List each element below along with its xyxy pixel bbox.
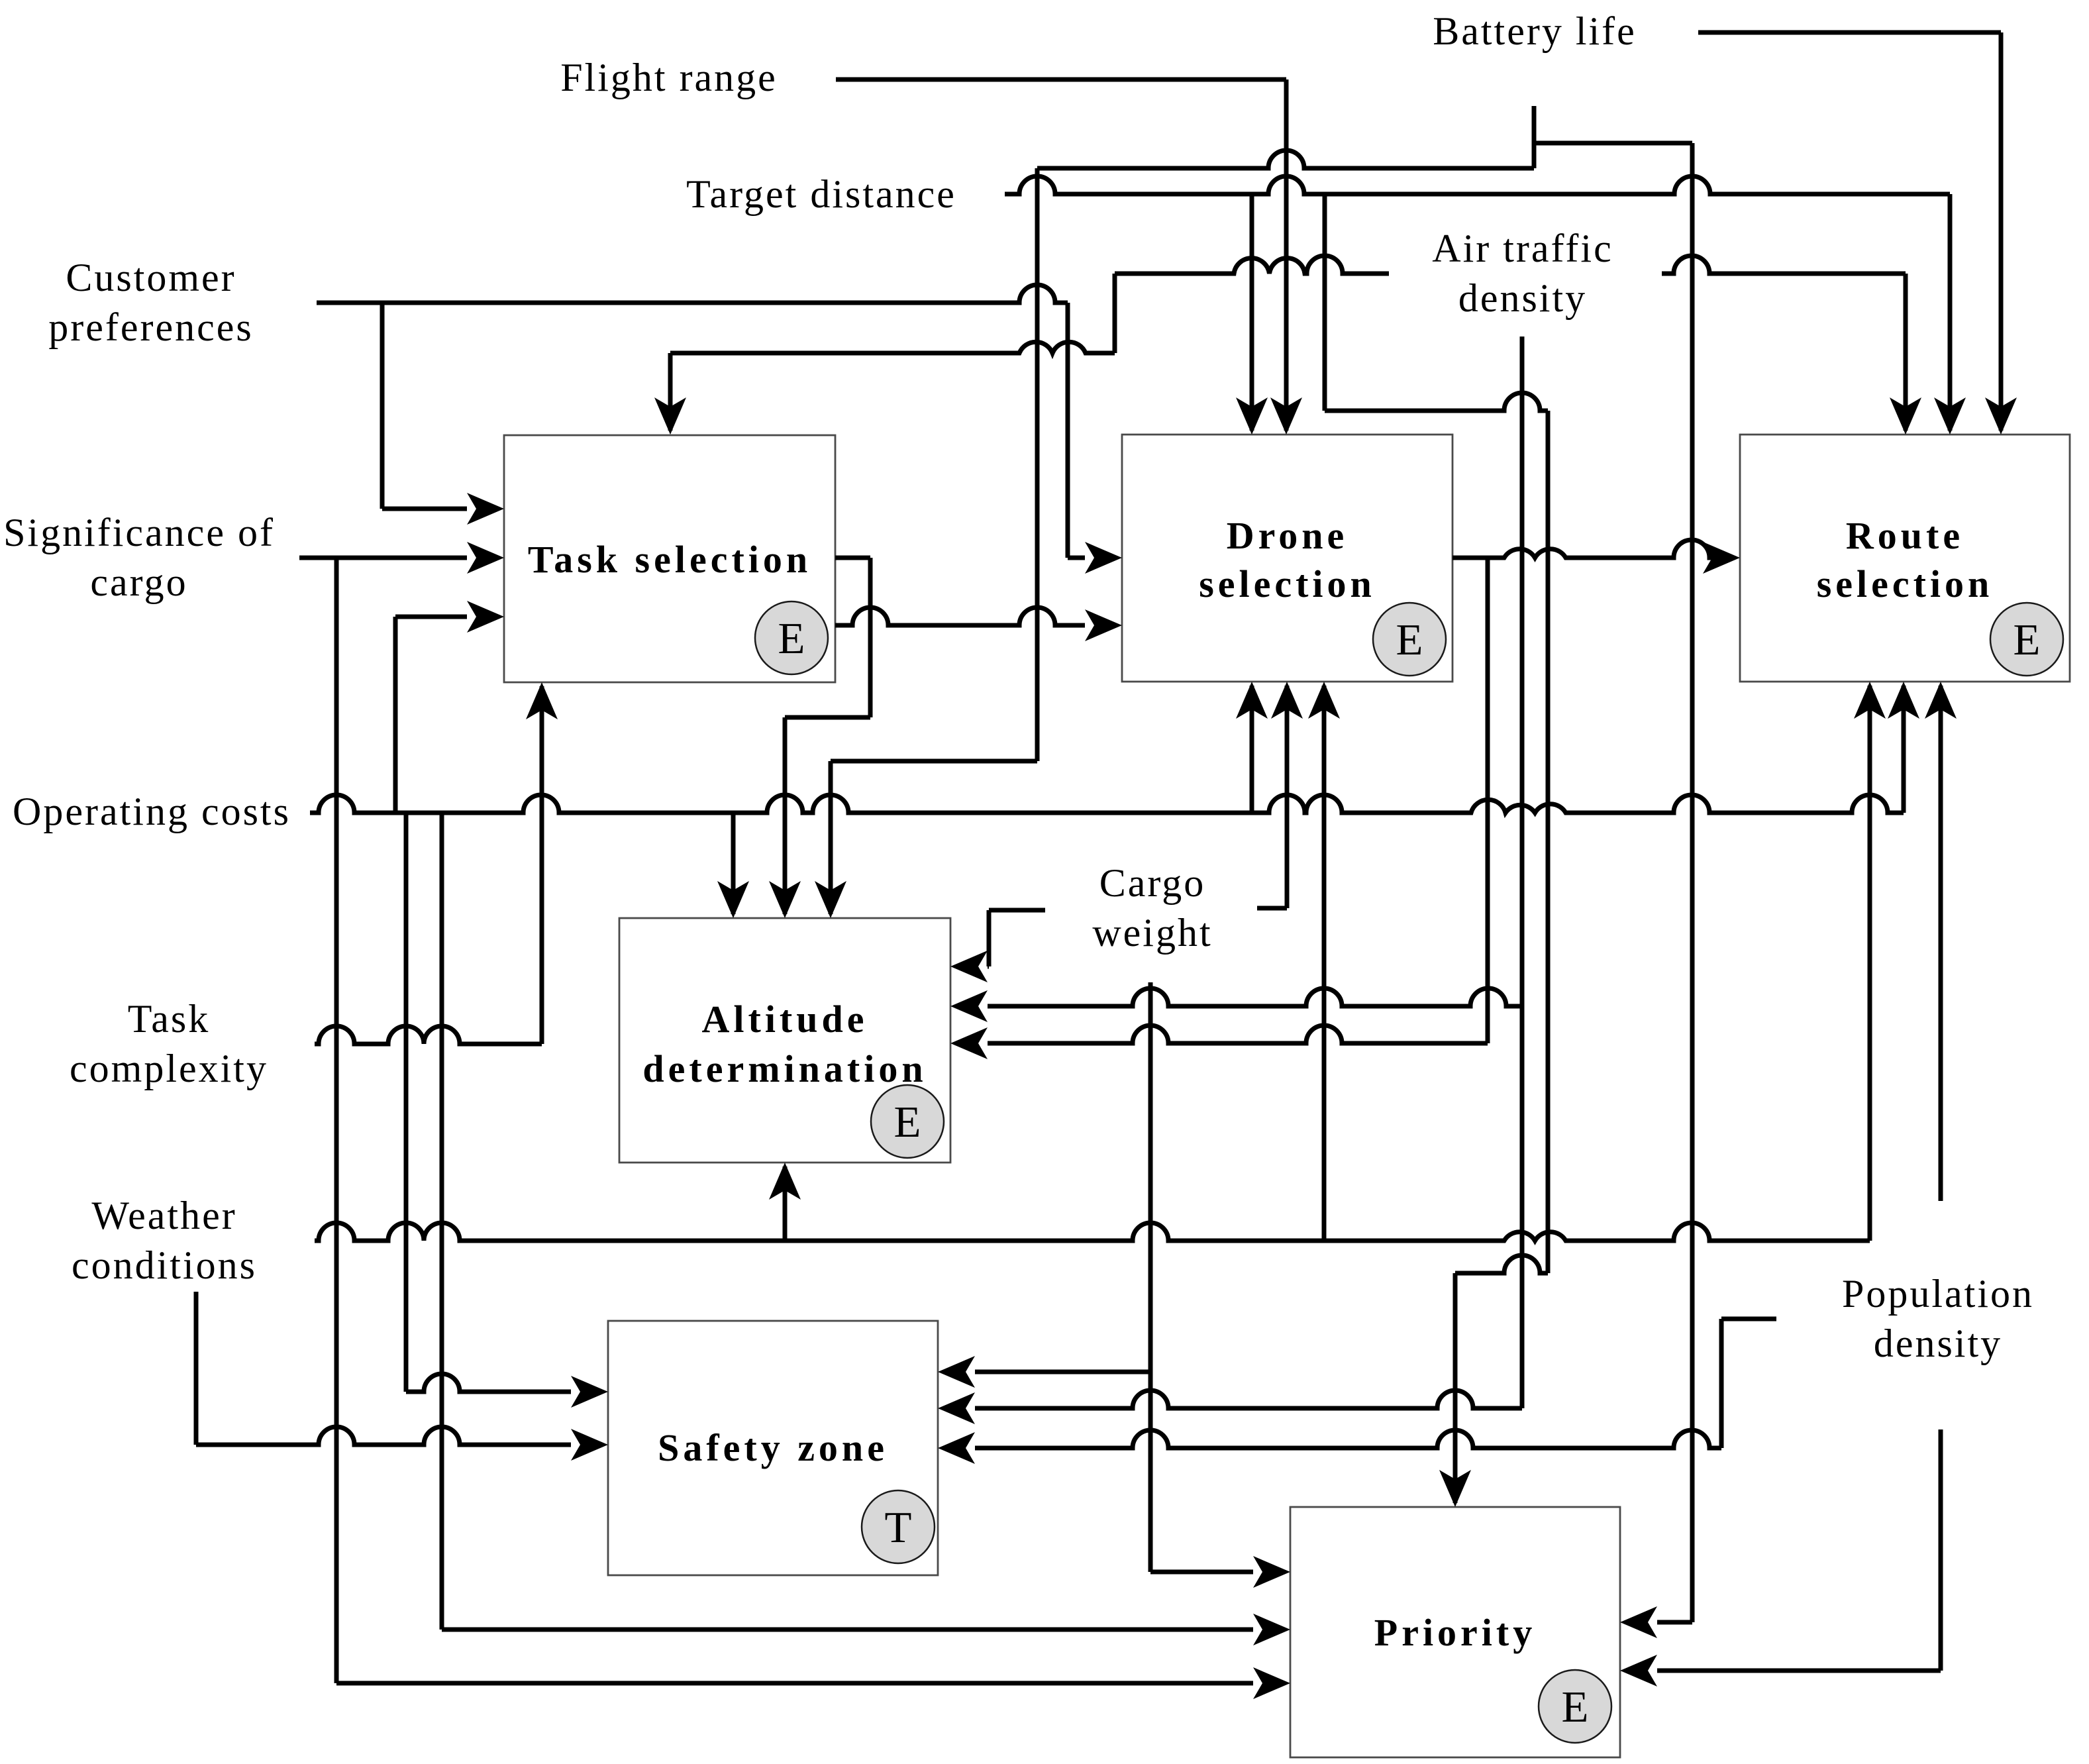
block: Priority (E) bbox=[1290, 1507, 1620, 1757]
wire: jog left bbox=[785, 715, 870, 720]
svg-text:T: T bbox=[885, 1503, 912, 1552]
wire: across to Priority left #1 bbox=[1150, 1570, 1253, 1575]
wire: Cargo weight right stub bbox=[1257, 906, 1287, 911]
wire: drop into Task top bbox=[668, 353, 673, 431]
block: Drone selection (E) bbox=[1122, 435, 1452, 682]
wire: drop into Priority top bbox=[1453, 1273, 1458, 1503]
wire: jog down bbox=[987, 910, 992, 966]
wire: Air traffic density right line bbox=[1662, 256, 1906, 274]
wire: Task output 2 to Drone left #2 bbox=[835, 607, 1085, 625]
svg-text:selection: selection bbox=[1817, 562, 1994, 605]
svg-text:density: density bbox=[1458, 276, 1587, 320]
wire: drop to Drone selection input 1 bbox=[1066, 303, 1070, 558]
wire: Population density stub up to Route bottom #3 bbox=[1939, 686, 1943, 1201]
svg-text:Altitude: Altitude bbox=[702, 998, 868, 1041]
svg-text:Safety zone: Safety zone bbox=[658, 1426, 888, 1469]
wire: long drop x2337 bbox=[1546, 411, 1551, 1273]
arrowhead into Safety zone right #2 bbox=[938, 1392, 975, 1424]
wire: Cargo weight left stub bbox=[989, 908, 1045, 913]
svg-text:Target distance: Target distance bbox=[686, 172, 956, 216]
wire: costs branch up to Task input 3 bbox=[393, 617, 398, 813]
svg-text:determination: determination bbox=[642, 1047, 927, 1090]
arrowhead into Drone selection top #1 bbox=[1236, 397, 1268, 435]
wire: Target distance branch down to Drone selection bbox=[1250, 194, 1254, 431]
arrowhead into Task selection left #1 bbox=[467, 493, 504, 525]
block: Altitude determination (E) bbox=[619, 918, 950, 1163]
wire: Task output 1 bbox=[835, 556, 870, 560]
wire: weather branch up to Altitude bottom bbox=[783, 1167, 788, 1241]
wire: Target distance horizontal bbox=[1005, 176, 1950, 194]
arrowhead into Safety zone left #1 bbox=[571, 1376, 608, 1408]
wire: into Task selection input 3 bbox=[395, 615, 467, 619]
wire: across left bbox=[670, 342, 1115, 353]
wire: Target distance branch down (to Priority) bbox=[1323, 194, 1327, 411]
wire: drop bbox=[1719, 1319, 1724, 1448]
wire: across to Safety zone left #2 bbox=[196, 1427, 571, 1445]
wire: weather branch up to Drone bottom #3 bbox=[1322, 686, 1327, 1241]
wire: Significance branch down to Priority bbox=[334, 558, 339, 1683]
svg-text:density: density bbox=[1874, 1322, 2002, 1365]
arrowhead into Task selection left #2 bbox=[467, 542, 504, 574]
wire: up to Drone bottom #2 bbox=[1285, 686, 1290, 908]
arrowhead into Safety zone right #3 bbox=[938, 1432, 975, 1464]
svg-text:Route: Route bbox=[1846, 514, 1964, 557]
arrowhead into Priority right #2 bbox=[1620, 1655, 1657, 1686]
svg-text:Air traffic: Air traffic bbox=[1432, 227, 1613, 270]
wire: Population density left stub bbox=[1721, 1317, 1776, 1322]
arrowhead into Drone selection bottom #2 bbox=[1271, 682, 1303, 719]
svg-text:E: E bbox=[2013, 615, 2041, 664]
wire: drop into Altitude top #2 bbox=[783, 717, 788, 914]
svg-text:Priority: Priority bbox=[1374, 1611, 1536, 1654]
wire: into Drone selection input 1 bbox=[1068, 556, 1085, 560]
wire: Significance of cargo horizontal bbox=[299, 556, 467, 560]
wire: drop into Route top #1 bbox=[1904, 274, 1908, 431]
wire: into Task selection input 1 bbox=[382, 507, 467, 511]
arrowhead into Priority right #1 bbox=[1620, 1606, 1657, 1638]
arrowhead into Safety zone right #1 bbox=[938, 1356, 975, 1388]
svg-text:Customer: Customer bbox=[66, 256, 236, 299]
wire: across to Safety zone right #1 bbox=[975, 1370, 1150, 1375]
wire: Target distance drop to Route selection bbox=[1948, 194, 1953, 431]
arrowhead into Drone selection bottom #3 bbox=[1308, 682, 1340, 719]
svg-text:Cargo: Cargo bbox=[1099, 861, 1206, 905]
arrowhead into Route selection top #2 bbox=[1934, 397, 1966, 435]
svg-text:cargo: cargo bbox=[90, 560, 187, 604]
wire: jog left bbox=[831, 759, 1037, 764]
wire: Battery life horizontal bbox=[1698, 30, 2001, 35]
arrowhead into Altitude determination right #2 bbox=[950, 990, 988, 1022]
arrowhead into Route selection top #3 bbox=[1985, 397, 2017, 435]
wire: across to Safety zone right #2 bbox=[975, 1390, 1522, 1408]
arrowhead into Altitude determination top #2 bbox=[769, 881, 801, 918]
wire: across to Altitude right #3 bbox=[988, 1025, 1488, 1043]
wire: Weather conditions trunk bbox=[315, 1223, 1870, 1241]
wire: weather end up to Route bottom #1 bbox=[1868, 686, 1872, 1241]
wire: Air traffic density left line bbox=[1115, 256, 1389, 274]
arrowhead into Altitude determination right #1 bbox=[950, 951, 988, 982]
arrowhead into Priority top bbox=[1439, 1470, 1471, 1507]
wire: Weather stub down bbox=[194, 1292, 199, 1445]
wire: across to Safety zone left #1 bbox=[406, 1374, 571, 1392]
svg-text:Population: Population bbox=[1842, 1272, 2034, 1316]
svg-text:weight: weight bbox=[1092, 911, 1212, 955]
svg-text:Operating costs: Operating costs bbox=[13, 790, 291, 833]
svg-text:Weather: Weather bbox=[91, 1194, 236, 1237]
wire: drop into Altitude top #3 bbox=[829, 761, 833, 914]
svg-text:Significance of: Significance of bbox=[3, 511, 275, 554]
wire: across to Altitude right #2 bbox=[988, 988, 1522, 1006]
wire: across to Priority left #2 bbox=[442, 1628, 1253, 1632]
svg-text:complexity: complexity bbox=[70, 1047, 268, 1090]
arrowhead into Altitude determination bottom bbox=[769, 1163, 801, 1200]
arrowhead into Drone selection top #2 bbox=[1270, 397, 1302, 435]
arrowhead into Route selection top #1 bbox=[1890, 397, 1921, 435]
wire: Air traffic density stub down bbox=[1520, 337, 1525, 1408]
svg-text:E: E bbox=[894, 1098, 921, 1147]
wire: Customer preferences horizontal bbox=[317, 285, 1068, 303]
arrowhead into Priority left #1 bbox=[1253, 1556, 1290, 1588]
svg-text:conditions: conditions bbox=[72, 1243, 257, 1287]
wire: long drop x2555 bbox=[1690, 143, 1695, 1622]
wire: down bbox=[868, 558, 873, 717]
svg-text:Task selection: Task selection bbox=[528, 538, 811, 581]
wire: Flight range horizontal bbox=[836, 78, 1286, 82]
wire: costs branch down to Safety zone bbox=[404, 813, 409, 1392]
wire: branch down to Task selection input 1 bbox=[380, 303, 385, 509]
arrowhead into Priority left #3 bbox=[1253, 1667, 1290, 1699]
wire: costs branch up to Drone bottom #1 bbox=[1250, 686, 1254, 813]
wire: Drone output to Route bbox=[1452, 540, 1712, 558]
wire: up into Task selection bottom bbox=[540, 686, 544, 1044]
block: Route selection (E) bbox=[1740, 435, 2070, 682]
wire: stub jog left bbox=[1037, 150, 1534, 168]
arrowhead into Task selection top bbox=[654, 397, 686, 435]
wire: across to Safety zone right #3 bbox=[975, 1430, 1721, 1448]
wire: long drop x1566 bbox=[1035, 168, 1040, 761]
arrowhead into Safety zone left #2 bbox=[571, 1429, 608, 1461]
wire: Flight range drop to Drone selection bbox=[1284, 79, 1289, 431]
arrowhead into Altitude determination top #1 bbox=[717, 881, 749, 918]
block: Task selection (E) bbox=[504, 435, 835, 682]
svg-text:Task: Task bbox=[128, 997, 210, 1041]
wire: Cargo weight stub down bbox=[1148, 982, 1153, 1572]
svg-text:Battery life: Battery life bbox=[1433, 9, 1637, 53]
arrowhead into Drone selection left #1 bbox=[1085, 542, 1122, 574]
wire: Population density stub down bbox=[1939, 1429, 1943, 1671]
wire: into Altitude right #1 bbox=[988, 964, 989, 969]
wire: across to Priority left #3 bbox=[336, 1681, 1253, 1686]
arrowhead into Route selection bottom #2 bbox=[1888, 682, 1919, 719]
wire: costs end up to Route bottom #2 bbox=[1902, 686, 1906, 813]
wire: Battery life stub below label bbox=[1532, 106, 1537, 168]
arrowhead into Task selection left #3 bbox=[467, 601, 504, 633]
wire: costs branch down to Priority bbox=[440, 813, 444, 1630]
block: Safety zone (T) bbox=[608, 1321, 938, 1575]
arrowhead into Task selection bottom bbox=[526, 682, 558, 719]
arrowhead into Altitude determination top #3 bbox=[815, 881, 846, 918]
arrowhead into Altitude determination right #3 bbox=[950, 1027, 988, 1059]
arrowhead into Priority left #2 bbox=[1253, 1614, 1290, 1645]
svg-text:selection: selection bbox=[1199, 562, 1376, 605]
wire: into Priority right #2 bbox=[1657, 1669, 1941, 1673]
arrowhead into Drone selection left #2 bbox=[1085, 609, 1122, 641]
wire: branch across to x2337 bbox=[1325, 393, 1548, 411]
wire: stub jog right bbox=[1534, 141, 1692, 146]
wire: Operating costs trunk bbox=[310, 795, 1904, 813]
wire: Drone output branch down bbox=[1486, 558, 1490, 1043]
svg-text:Flight range: Flight range bbox=[560, 56, 778, 99]
svg-text:preferences: preferences bbox=[48, 305, 253, 349]
arrowhead into Route selection bottom #3 bbox=[1925, 682, 1957, 719]
wire: drop bbox=[1113, 274, 1117, 353]
wire: Task complexity horizontal bbox=[315, 1026, 542, 1044]
svg-text:E: E bbox=[1562, 1683, 1589, 1732]
wire: drop into Route top #3 bbox=[1999, 32, 2004, 431]
wire: costs branch down to Altitude top #1 bbox=[731, 813, 736, 914]
arrowhead into Drone selection bottom #1 bbox=[1236, 682, 1268, 719]
wire: jog left toward Priority top bbox=[1455, 1255, 1548, 1273]
wire: into Priority right #1 bbox=[1657, 1620, 1692, 1625]
svg-text:E: E bbox=[778, 614, 805, 663]
svg-text:Drone: Drone bbox=[1227, 514, 1349, 557]
arrowhead into Route selection bottom #1 bbox=[1854, 682, 1886, 719]
svg-text:E: E bbox=[1396, 615, 1423, 664]
arrowhead into Route selection left bbox=[1703, 542, 1740, 574]
